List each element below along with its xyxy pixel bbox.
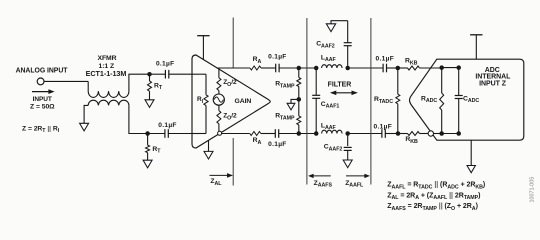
capacitor 0.1uF bottom right xyxy=(381,129,383,138)
wire bottom node to cap xyxy=(148,133,165,135)
ZAL boundary line xyxy=(232,18,234,68)
svg-text:0.1µF: 0.1µF xyxy=(376,56,395,63)
resistor RTAMP bottom xyxy=(298,99,300,116)
amp internal top input wire xyxy=(192,73,206,75)
capacitor 0.1uF top right xyxy=(382,64,384,73)
wire cap to amp bottom input xyxy=(168,133,192,135)
capacitor 0.1uF bottom input xyxy=(164,129,166,138)
ZAAFS boundary line xyxy=(306,18,308,185)
ZAL arrow xyxy=(210,174,229,176)
svg-text:0.1µF: 0.1µF xyxy=(156,60,175,67)
ground below amp xyxy=(204,151,213,159)
wire RADC to CADC top xyxy=(442,67,459,69)
wire filter to cap bottom right xyxy=(348,133,382,135)
wire amp bottom output xyxy=(222,133,250,135)
node RADC top xyxy=(439,65,444,70)
ADC bottom input pin circle xyxy=(428,131,433,136)
resistor RA top xyxy=(250,66,261,70)
svg-text:Z = 50Ω: Z = 50Ω xyxy=(30,103,55,110)
node RTADC top xyxy=(396,66,401,71)
resistor RKB bottom xyxy=(398,133,408,135)
node top termination xyxy=(147,72,152,77)
transformer T1 primary winding xyxy=(87,81,89,91)
svg-text:0.1µF: 0.1µF xyxy=(268,141,287,148)
node CAAF1 bottom xyxy=(314,131,319,136)
ADC box with input chevron xyxy=(410,59,524,140)
wire amp top output xyxy=(217,67,251,69)
capacitor CAAF1 xyxy=(315,68,317,95)
inductor LAAF bottom xyxy=(322,130,342,133)
RTAMP mid ground stem xyxy=(291,99,299,103)
resistor RADC xyxy=(441,68,443,93)
node CADC bottom xyxy=(456,131,461,136)
wire filter to cap top right xyxy=(348,67,383,69)
wire RA top to cap xyxy=(261,67,276,69)
node RTAMP bottom xyxy=(297,131,302,136)
resistor RT bottom xyxy=(147,134,149,146)
wire cap to RTADC top xyxy=(387,67,398,69)
node RTADC bottom xyxy=(396,131,401,136)
resistor RA bottom xyxy=(250,132,261,136)
resistor ZO/2 top xyxy=(218,68,220,78)
node LAAF top right / CAAF2 top xyxy=(345,66,350,71)
ADC bottom pin wire xyxy=(434,133,442,135)
svg-text:XFMR: XFMR xyxy=(97,55,116,62)
wire input to transformer xyxy=(44,80,88,82)
resistor RTAMP top xyxy=(298,68,300,78)
input direction arrow xyxy=(32,91,50,93)
svg-text:INPUT: INPUT xyxy=(33,96,52,103)
transformer T1 secondary winding xyxy=(88,100,129,105)
node CAAF1 top xyxy=(314,66,319,71)
resistor RT top xyxy=(149,74,151,81)
node RADC bottom xyxy=(439,131,444,136)
wire cap to amp top input xyxy=(169,73,192,75)
node RTAMP top xyxy=(297,66,302,71)
node RTAMP mid xyxy=(297,97,302,102)
ground at secondary left xyxy=(80,123,89,131)
ADC ground stem xyxy=(470,140,472,165)
wire top node to cap xyxy=(150,73,166,75)
svg-text:0.1µF: 0.1µF xyxy=(158,122,177,129)
amplifier triangle xyxy=(192,55,270,148)
resistor RKB top xyxy=(398,67,408,69)
FILTER double arrow xyxy=(334,92,354,94)
svg-text:FILTER: FILTER xyxy=(328,81,352,88)
ZAAFL arrow xyxy=(346,175,366,177)
wire cap to filter top xyxy=(279,67,316,69)
ground below RT bottom xyxy=(143,160,152,168)
svg-text:0.1µF: 0.1µF xyxy=(268,54,287,61)
node LAAF bottom right / CAAF2 bottom xyxy=(345,131,350,136)
svg-text:ECT1-1-13M: ECT1-1-13M xyxy=(86,69,127,78)
capacitor CAAF2 top xyxy=(347,46,349,68)
node CADC top xyxy=(456,65,461,70)
ground below CAAF2 bottom xyxy=(343,160,352,168)
input terminal xyxy=(37,78,44,85)
amp output bubble xyxy=(218,131,222,135)
ground above CAAF2 top xyxy=(326,24,335,32)
amp supply T-bar xyxy=(202,36,204,60)
ground below ADC xyxy=(467,166,475,173)
ZAAFS arrow xyxy=(312,175,331,177)
resistor ZO/2 bottom xyxy=(218,105,220,110)
resistor RI input impedance xyxy=(205,74,207,95)
resistor RTADC xyxy=(397,68,399,94)
svg-text:10071-005: 10071-005 xyxy=(530,177,536,203)
inductor LAAF top xyxy=(322,65,342,68)
capacitor CAAF2 bottom xyxy=(347,134,349,147)
ground below RT top xyxy=(145,100,154,108)
svg-text:ANALOG INPUT: ANALOG INPUT xyxy=(16,67,69,74)
node bottom termination xyxy=(145,131,150,136)
capacitor 0.1uF bottom output xyxy=(274,129,276,138)
svg-text:INPUT Z: INPUT Z xyxy=(479,80,507,87)
amp internal bottom input wire xyxy=(192,133,206,135)
wire cap to RTADC bottom xyxy=(385,133,398,135)
ZAAFL boundary line xyxy=(370,18,372,185)
amp ground stem xyxy=(208,140,210,151)
ADC supply T-bar xyxy=(475,35,477,59)
svg-text:0.1µF: 0.1µF xyxy=(374,123,393,130)
capacitor 0.1uF top input xyxy=(164,70,166,79)
svg-text:GAIN: GAIN xyxy=(235,98,252,105)
amp source circle xyxy=(213,94,224,105)
capacitor 0.1uF top output xyxy=(275,64,277,73)
ground at RTAMP mid xyxy=(287,103,295,110)
wire RA bottom to cap xyxy=(261,133,276,135)
wire cap to filter bottom xyxy=(279,133,317,135)
capacitor CADC xyxy=(458,68,460,96)
wire RADC to CADC bottom xyxy=(442,133,459,135)
